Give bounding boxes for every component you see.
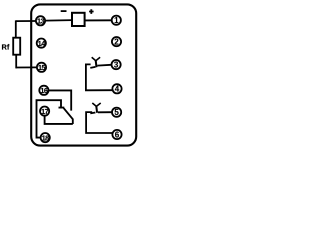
wire: junction down to Rf top bbox=[15, 20, 17, 38]
wire: contact to pin 3 bbox=[97, 64, 111, 67]
svg-text:4: 4 bbox=[115, 85, 120, 94]
wire: pin 6 up-hook (fixed contact of pin5 switch) bbox=[86, 112, 112, 133]
svg-text:Rf: Rf bbox=[2, 43, 10, 52]
changeover blade (pins 16/17/18) bbox=[64, 108, 73, 124]
svg-text:13: 13 bbox=[37, 17, 44, 26]
wire: pin 16 right and down (fixed contact) bbox=[49, 90, 71, 110]
wire: contact to pin 5 bbox=[98, 111, 112, 113]
pin 13 terminal bbox=[36, 16, 45, 25]
svg-text:16: 16 bbox=[40, 86, 47, 95]
svg-text:2: 2 bbox=[114, 37, 119, 46]
pin 17 terminal bbox=[40, 107, 49, 116]
wire: Rf bottom down bbox=[15, 55, 17, 69]
pin 4 terminal bbox=[112, 84, 121, 93]
wire: pin 4 up-hook (fixed contact of pin3 switch) bbox=[86, 64, 112, 90]
svg-text:18: 18 bbox=[42, 133, 49, 142]
svg-text:1: 1 bbox=[114, 16, 119, 25]
contact blade lower lead (pin 5 switch) bbox=[90, 112, 95, 115]
pin 3 terminal bbox=[112, 60, 121, 69]
wire: pin 18 left-up-right-down (fixed contact with tick) bbox=[37, 100, 65, 137]
pin 15 terminal bbox=[37, 63, 46, 72]
svg-text:15: 15 bbox=[38, 63, 45, 72]
wire: junction to pin 13 bbox=[16, 20, 36, 22]
svg-text:5: 5 bbox=[114, 108, 119, 117]
relay outline bbox=[31, 4, 136, 145]
svg-text:3: 3 bbox=[114, 60, 119, 69]
contact whiskers (pin 5 switch) bbox=[92, 103, 100, 106]
resistor Rf bbox=[13, 38, 20, 55]
coil box bbox=[72, 13, 85, 26]
pin 2 terminal bbox=[112, 37, 121, 46]
label plus bbox=[89, 9, 94, 14]
pin 18 terminal bbox=[41, 133, 50, 142]
label minus bbox=[61, 10, 67, 12]
wire: to pin 15 bbox=[16, 66, 37, 68]
contact bar (pin 3 switch) bbox=[95, 60, 98, 67]
pin 16 terminal bbox=[39, 86, 48, 95]
contact bar (pin 5 switch) bbox=[95, 106, 98, 113]
wire: pin 13 to coil box bbox=[46, 19, 73, 22]
wire: pin 17 down and right to blade bbox=[45, 116, 73, 124]
contact whiskers (pin 3 switch) bbox=[92, 57, 100, 60]
pin 1 terminal bbox=[112, 16, 121, 25]
wire: coil box to pin 1 bbox=[85, 19, 112, 21]
contact blade lower lead (pin 3 switch) bbox=[90, 67, 95, 68]
svg-text:17: 17 bbox=[41, 107, 48, 116]
pin 14 terminal bbox=[37, 39, 46, 48]
pin 5 terminal bbox=[112, 108, 121, 117]
svg-text:6: 6 bbox=[115, 130, 120, 139]
svg-text:14: 14 bbox=[38, 39, 45, 48]
pin 6 terminal bbox=[112, 130, 121, 139]
